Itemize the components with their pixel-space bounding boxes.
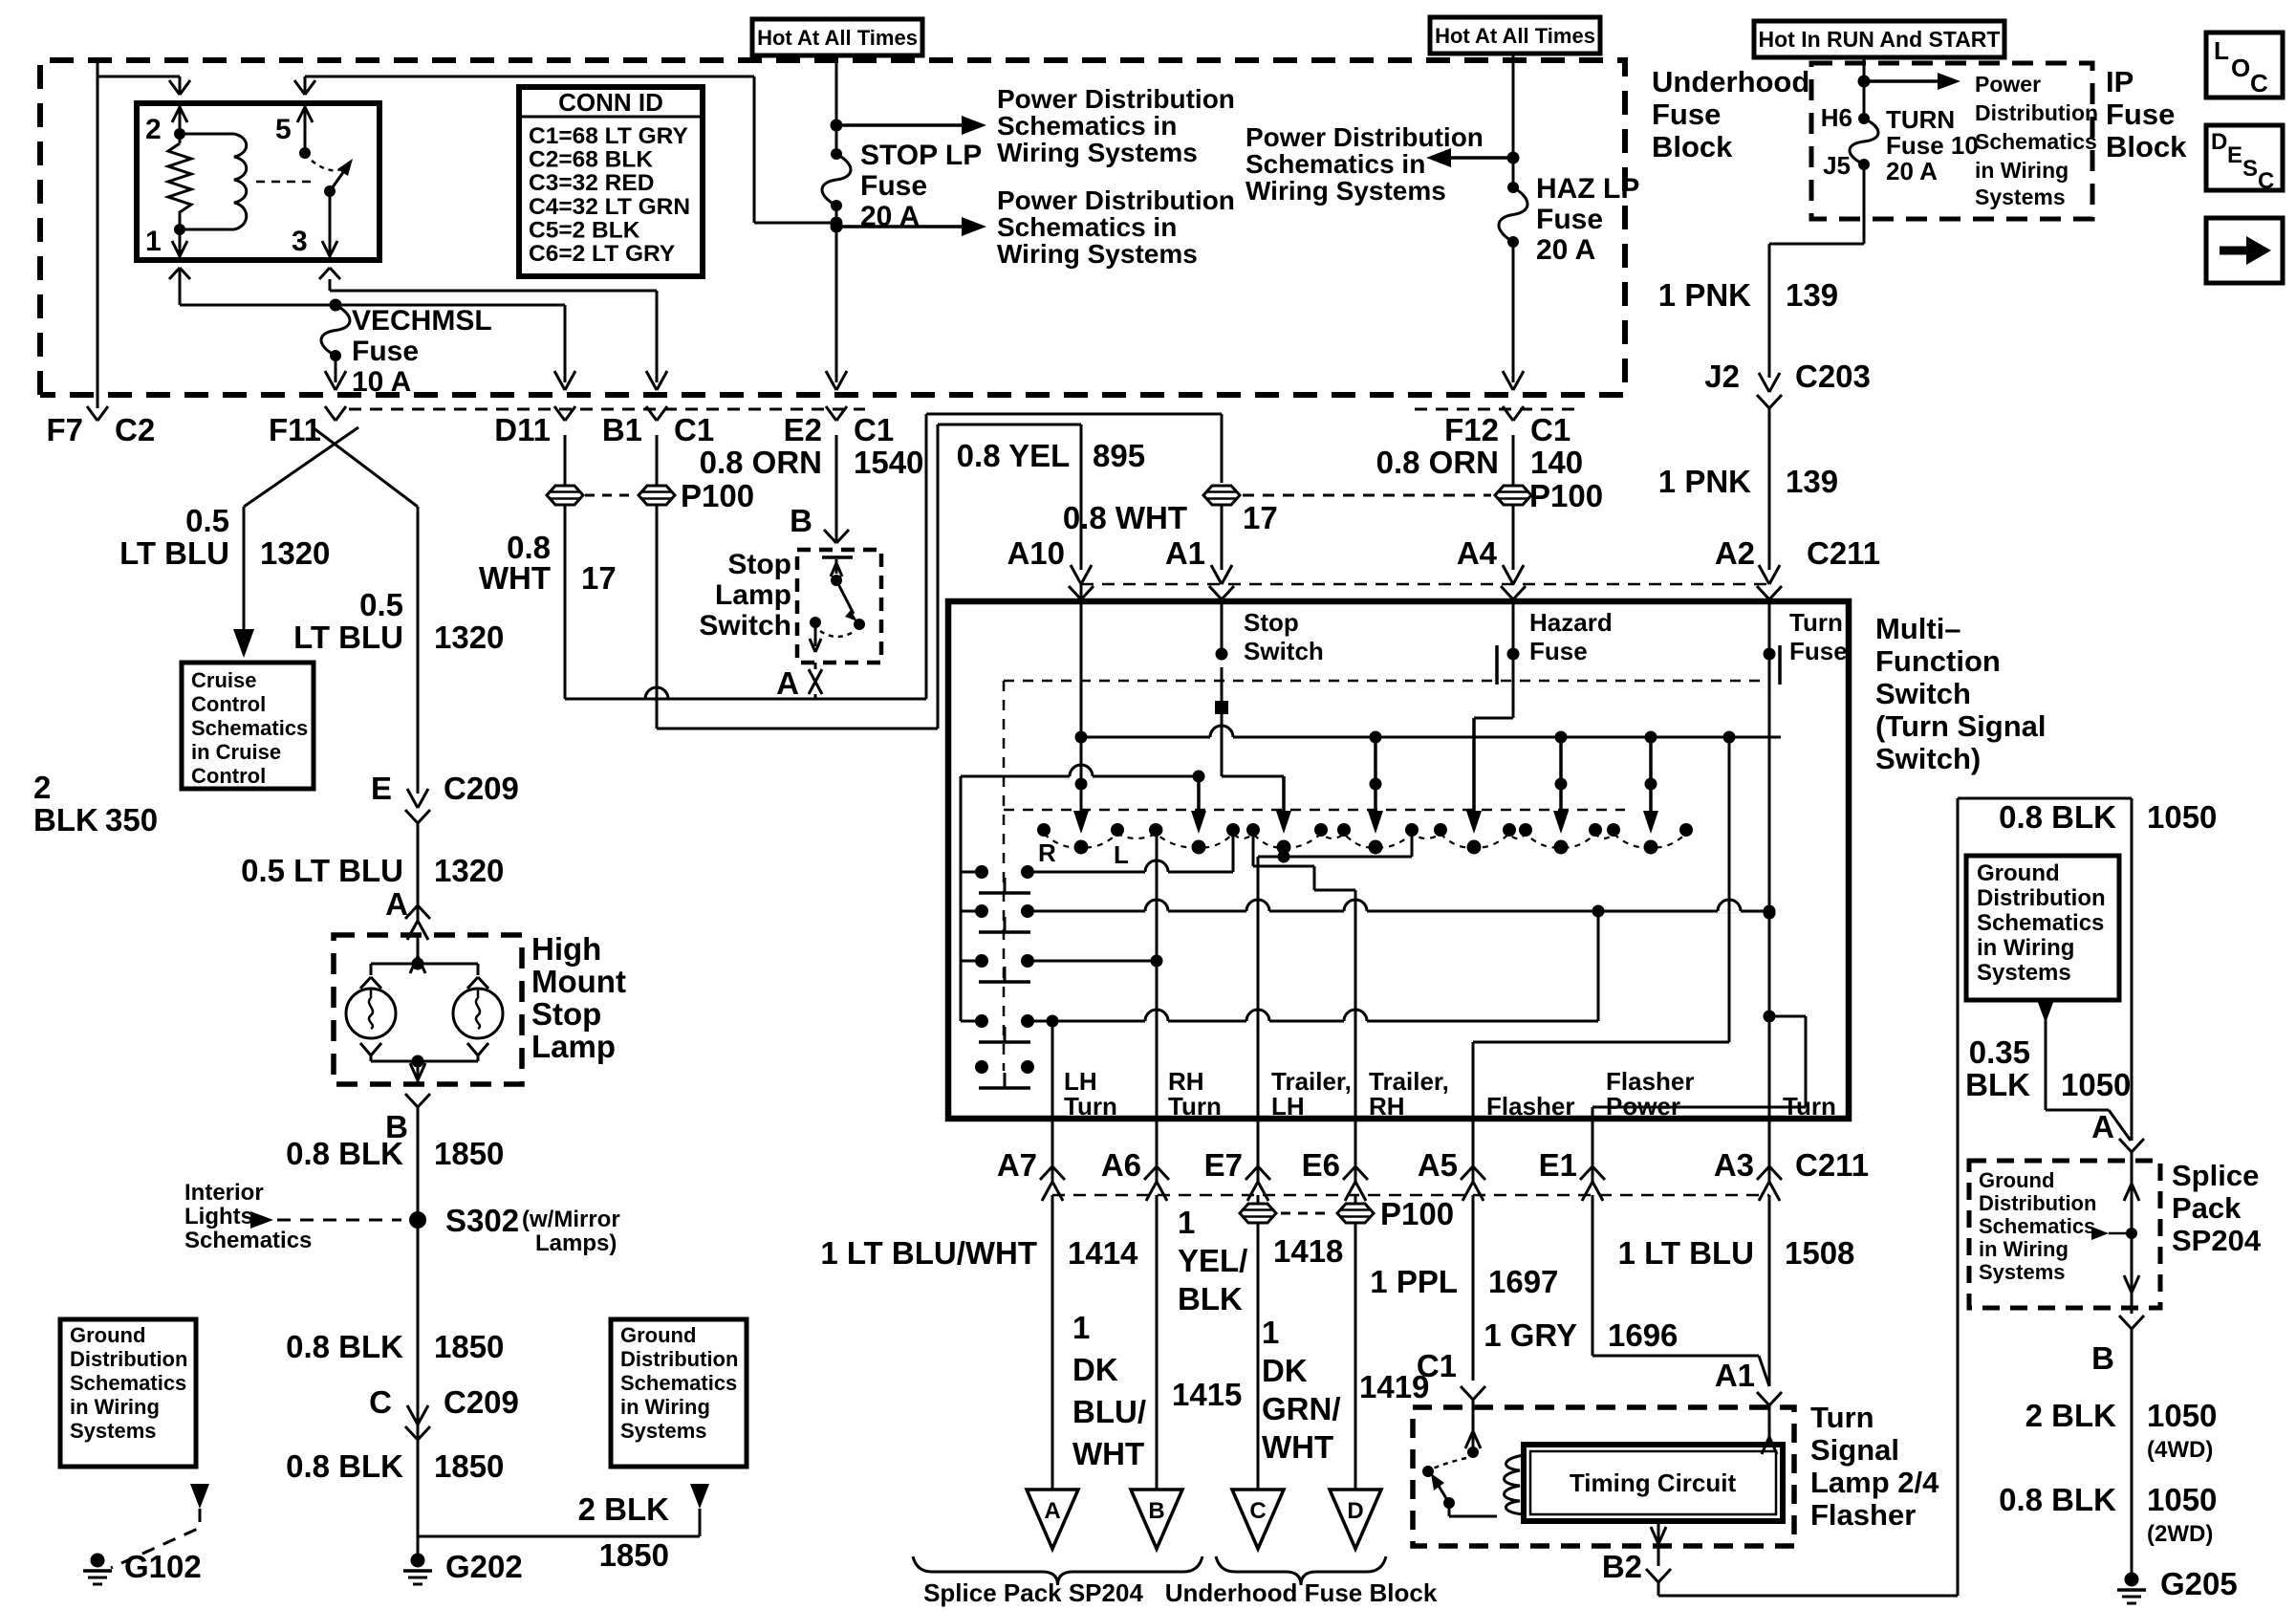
svg-text:RH: RH	[1369, 1092, 1405, 1120]
svg-text:Systems: Systems	[1979, 1260, 2066, 1284]
wire 0.5 LT BLU 1320 to cruise	[233, 507, 254, 658]
svg-text:WHT: WHT	[1262, 1429, 1333, 1465]
svg-text:Distribution: Distribution	[70, 1347, 187, 1371]
wire J2 to A2	[1757, 408, 1782, 599]
wire A1 grommet to MFS	[1221, 505, 1224, 570]
svg-text:Timing Circuit: Timing Circuit	[1570, 1469, 1737, 1497]
label C211 bottom	[1795, 1147, 1869, 1183]
svg-text:Turn: Turn	[1783, 1092, 1836, 1120]
label 0.8 ORN 1540	[700, 445, 924, 480]
connector D11	[494, 406, 575, 447]
svg-text:17: 17	[581, 560, 617, 596]
wire F7 pin2 feed	[97, 60, 190, 408]
svg-text:E1: E1	[1539, 1147, 1577, 1183]
svg-text:C6=2 LT GRY: C6=2 LT GRY	[529, 241, 675, 267]
MFS turn branch	[1598, 907, 1776, 920]
relay pin3 arrow	[322, 241, 337, 256]
LOC box	[2206, 33, 2283, 98]
svg-text:YEL/: YEL/	[1178, 1243, 1247, 1278]
svg-text:Schematics in: Schematics in	[1245, 149, 1425, 179]
svg-text:1540: 1540	[854, 445, 923, 480]
svg-text:1050: 1050	[2147, 1398, 2217, 1433]
wire A6 down	[1156, 1195, 1159, 1490]
label Underhood Fuse Block bottom	[1165, 1578, 1438, 1607]
svg-text:C1=68 LT GRY: C1=68 LT GRY	[529, 123, 688, 149]
MFS hazard fuse	[1466, 601, 1613, 834]
label A1 flasher	[1715, 1358, 1755, 1393]
svg-text:A7: A7	[997, 1147, 1037, 1183]
connector A1 flasher	[1757, 1392, 1782, 1405]
svg-text:Schematics: Schematics	[1979, 1214, 2095, 1238]
svg-text:1050: 1050	[2147, 799, 2217, 835]
svg-text:2 BLK: 2 BLK	[578, 1491, 670, 1527]
label power distribution schematics 3	[1245, 122, 1484, 206]
svg-text:Lamp: Lamp	[715, 579, 791, 611]
label power distribution schematics 4	[1975, 72, 2098, 209]
svg-text:1415: 1415	[1172, 1377, 1242, 1412]
grommet P100 A1	[1203, 435, 1603, 570]
svg-text:Distribution: Distribution	[1975, 100, 2098, 125]
wire pin1 to D11	[169, 268, 575, 390]
MFS stop switch element	[1215, 601, 1324, 714]
label power distribution schematics 1	[997, 84, 1235, 167]
svg-text:Function: Function	[1875, 644, 2001, 678]
svg-text:in Wiring: in Wiring	[1975, 158, 2069, 183]
svg-text:1050: 1050	[2061, 1067, 2131, 1102]
svg-text:B: B	[2091, 1340, 2114, 1376]
triangle connector C	[1232, 1490, 1284, 1549]
label IP Fuse Block	[2106, 65, 2187, 163]
svg-text:A: A	[385, 886, 408, 922]
svg-text:in Wiring: in Wiring	[620, 1395, 710, 1419]
label Turn Signal Lamp 2/4 Flasher	[1810, 1401, 1939, 1532]
flasher coil	[1505, 1455, 1525, 1514]
brace splice pack SP204	[913, 1556, 1202, 1585]
svg-text:Power Distribution: Power Distribution	[997, 84, 1235, 114]
MFS bus 953	[1034, 900, 1776, 918]
svg-text:Block: Block	[1652, 130, 1733, 163]
connector line thin dashed left	[349, 408, 865, 411]
label A splice	[2091, 1109, 2114, 1144]
svg-text:Underhood Fuse Block: Underhood Fuse Block	[1165, 1578, 1438, 1607]
svg-text:1320: 1320	[434, 853, 504, 888]
label Underhood Fuse Block	[1652, 65, 1809, 163]
svg-text:BLK: BLK	[1965, 1067, 2030, 1102]
svg-text:C: C	[369, 1384, 392, 1420]
connector A1	[1165, 535, 1234, 599]
fuse TURN Fuse 10 20A	[1821, 103, 1979, 185]
svg-text:Switch): Switch)	[1875, 742, 1981, 775]
relay pin 2 stub	[172, 103, 187, 134]
svg-text:0.8 BLK: 0.8 BLK	[1999, 799, 2116, 835]
svg-text:in Wiring: in Wiring	[1977, 935, 2074, 961]
wire A7 down	[1051, 1195, 1054, 1490]
fuse STOP LP 20A	[822, 140, 982, 232]
svg-text:A6: A6	[1101, 1147, 1141, 1183]
IP fuse block dashed border	[1811, 63, 2092, 219]
connector A5	[1418, 1119, 1485, 1201]
interior lights dashed arrow	[250, 1211, 401, 1229]
svg-text:0.8 BLK: 0.8 BLK	[286, 1329, 403, 1364]
wire hot RUN to TURN fuse	[1858, 55, 1871, 119]
svg-text:1050: 1050	[2147, 1482, 2217, 1517]
svg-text:Underhood: Underhood	[1652, 65, 1809, 98]
svg-text:Schematics: Schematics	[1977, 910, 2104, 936]
label 0.8 BLK 1850 (3)	[286, 1448, 504, 1484]
svg-text:Wiring Systems: Wiring Systems	[997, 138, 1198, 167]
svg-text:A2: A2	[1715, 535, 1755, 571]
svg-text:0.8 ORN: 0.8 ORN	[1376, 445, 1499, 480]
svg-text:HAZ LP: HAZ LP	[1536, 173, 1639, 205]
svg-text:0.8 ORN: 0.8 ORN	[700, 445, 822, 480]
svg-text:A4: A4	[1457, 535, 1498, 571]
relay linkage dashed	[256, 181, 317, 184]
svg-text:Pack: Pack	[2172, 1191, 2242, 1225]
connector line thin dashed F12	[1415, 408, 1577, 411]
svg-text:E7: E7	[1204, 1147, 1243, 1183]
CONN ID table	[519, 87, 703, 276]
wire A3 down	[1768, 1195, 1771, 1386]
svg-text:0.8 BLK: 0.8 BLK	[1999, 1482, 2116, 1517]
svg-text:G202: G202	[445, 1549, 523, 1584]
svg-text:J5: J5	[1823, 151, 1851, 180]
arrow power distribution 3	[1426, 148, 1513, 167]
svg-text:Fuse: Fuse	[1652, 98, 1721, 131]
svg-text:Hazard: Hazard	[1529, 608, 1613, 637]
label 1 LT BLU 1508	[1618, 1235, 1855, 1271]
svg-text:BLK: BLK	[33, 802, 98, 838]
flasher switch	[1422, 1458, 1497, 1516]
svg-text:Systems: Systems	[1975, 185, 2066, 209]
relay pin 5 stub	[297, 103, 313, 153]
svg-text:140: 140	[1530, 445, 1583, 480]
svg-text:3: 3	[292, 226, 308, 257]
svg-text:1696: 1696	[1608, 1317, 1678, 1353]
svg-text:Splice: Splice	[2172, 1159, 2259, 1192]
svg-text:L: L	[1114, 840, 1129, 869]
svg-text:Distribution: Distribution	[620, 1347, 738, 1371]
high mount stop lamp dashed box	[334, 935, 522, 1084]
triangle connector A	[1027, 1490, 1078, 1549]
svg-text:0.8 WHT: 0.8 WHT	[1063, 500, 1187, 535]
bulb left	[346, 989, 396, 1038]
svg-text:1850: 1850	[599, 1537, 669, 1573]
svg-text:Stop: Stop	[727, 549, 791, 580]
svg-text:C203: C203	[1795, 359, 1871, 394]
svg-text:High: High	[531, 931, 601, 967]
ground G202	[403, 1549, 523, 1584]
svg-text:LT BLU: LT BLU	[293, 620, 403, 655]
svg-text:1850: 1850	[434, 1136, 504, 1171]
svg-text:WHT: WHT	[479, 560, 551, 596]
relay box High Mount Stop Lamp (CHMSL) Relay	[137, 103, 379, 260]
wire A5 down	[1472, 1195, 1475, 1381]
relay coil winding	[180, 134, 247, 229]
svg-text:D11: D11	[494, 412, 551, 447]
MFS E1 riser	[1592, 1011, 1806, 1120]
svg-text:A5: A5	[1418, 1147, 1458, 1183]
svg-text:0.5: 0.5	[185, 503, 229, 538]
wire 2 BLK 350 label	[33, 770, 158, 838]
svg-text:Systems: Systems	[70, 1419, 157, 1443]
svg-text:L: L	[2214, 36, 2229, 65]
label 0.8 ORN 140	[1376, 445, 1583, 480]
label 1 LT BLU/WHT 1414	[820, 1235, 1138, 1271]
svg-text:Ground: Ground	[620, 1323, 696, 1347]
wire pin5 to stop fuse node	[294, 76, 831, 223]
MFS connector dashed line	[1081, 583, 1769, 586]
svg-text:1850: 1850	[434, 1448, 504, 1484]
svg-text:Switch: Switch	[699, 610, 791, 642]
svg-text:E2: E2	[784, 412, 822, 447]
svg-text:Schematics in: Schematics in	[997, 212, 1177, 242]
svg-text:0.35: 0.35	[1969, 1034, 2030, 1070]
svg-text:Fuse: Fuse	[2106, 98, 2175, 131]
svg-text:20 A: 20 A	[1536, 234, 1595, 266]
label 0.5 LT BLU 1320 (third)	[241, 853, 504, 888]
svg-text:BLK: BLK	[1178, 1281, 1243, 1316]
svg-text:1320: 1320	[260, 535, 330, 571]
svg-text:1 GRY: 1 GRY	[1484, 1317, 1577, 1353]
connector J2 C203	[1704, 359, 1871, 408]
flasher B2 output	[1602, 1521, 1958, 1596]
stop lamp switch contacts	[810, 557, 865, 652]
label 0.8 BLK 1850 (2)	[286, 1329, 504, 1364]
wire hot to stop fuse	[831, 55, 843, 154]
splice internal arrows	[2119, 1152, 2144, 1579]
wire 2 BLK 1850 to G202	[418, 1491, 700, 1573]
label B splice	[2091, 1340, 2114, 1376]
svg-text:C: C	[2258, 168, 2274, 194]
svg-text:Lamp 2/4: Lamp 2/4	[1810, 1466, 1939, 1499]
label High Mount Stop Lamp	[531, 931, 626, 1064]
wire pin3 to B1	[319, 268, 667, 390]
wire 0.8 WHT 17 B1 to A10	[657, 424, 1081, 729]
MFS internal dashed rect	[1004, 681, 1764, 1071]
MFS E6 riser	[1253, 830, 1355, 1119]
triangle connector D	[1330, 1490, 1381, 1549]
svg-text:1 LT BLU/WHT: 1 LT BLU/WHT	[820, 1235, 1037, 1271]
connector A10	[1007, 535, 1094, 599]
label interior lights schematics	[184, 1180, 312, 1253]
svg-text:1414: 1414	[1068, 1235, 1138, 1271]
splice S302	[409, 1203, 620, 1256]
label 1 PNK 139 lower	[1658, 464, 1838, 499]
svg-text:Fuse: Fuse	[352, 336, 419, 367]
svg-text:1418: 1418	[1273, 1233, 1343, 1269]
ground dist left arrow	[111, 1484, 209, 1568]
MFS E7 riser	[1258, 830, 1412, 1119]
svg-text:Switch: Switch	[1875, 677, 1971, 710]
connector A3	[1714, 1119, 1782, 1201]
relay coil resistor	[168, 128, 191, 235]
svg-text:C: C	[1249, 1498, 1266, 1524]
wire haz fuse down to F12	[1503, 242, 1524, 390]
svg-text:1: 1	[1178, 1205, 1195, 1240]
svg-text:STOP LP: STOP LP	[860, 140, 982, 171]
svg-text:(4WD): (4WD)	[2147, 1437, 2213, 1463]
svg-text:Turn: Turn	[1064, 1092, 1117, 1120]
svg-text:20 A: 20 A	[1886, 157, 1938, 185]
ground distribution box left	[60, 1319, 196, 1467]
svg-text:Power: Power	[1975, 72, 2041, 97]
svg-text:(w/Mirror: (w/Mirror	[522, 1207, 620, 1232]
svg-text:P100: P100	[1529, 478, 1603, 513]
label 0.8 WHT 17	[1063, 500, 1278, 535]
wire 0.35 BLK 1050	[2037, 1000, 2131, 1141]
connector C1 flasher	[1461, 1386, 1485, 1400]
connector A4	[1457, 535, 1526, 599]
svg-text:Ground: Ground	[1977, 860, 2060, 886]
underhood fuse block dashed border	[40, 60, 1625, 395]
svg-text:Fuse: Fuse	[1536, 204, 1603, 235]
MFS pin labels	[1064, 1067, 1836, 1120]
wire E6 down	[1281, 1195, 1454, 1490]
label Splice Pack SP204 right	[2172, 1159, 2262, 1257]
svg-text:A: A	[776, 665, 799, 701]
svg-text:Ground: Ground	[70, 1323, 145, 1347]
svg-text:J2: J2	[1704, 359, 1740, 394]
svg-text:P100: P100	[1380, 1196, 1454, 1231]
svg-text:C4=32 LT GRN: C4=32 LT GRN	[529, 194, 690, 220]
wire 0.8 YEL 895 stop to A1	[804, 414, 1222, 699]
svg-text:Fuse: Fuse	[860, 170, 927, 202]
MFS R L labels	[1038, 838, 1129, 869]
svg-text:1850: 1850	[434, 1329, 504, 1364]
ground distribution box right-top	[1966, 856, 2119, 1000]
svg-text:IP: IP	[2106, 65, 2134, 98]
label 2 BLK 1050 4WD	[2025, 1398, 2218, 1463]
label 0.5 LT BLU 1320 (left)	[119, 503, 330, 571]
svg-text:Power Distribution: Power Distribution	[997, 185, 1235, 215]
label 1 PNK 139 upper	[1658, 277, 1838, 313]
svg-text:Wiring Systems: Wiring Systems	[997, 239, 1198, 269]
cruise control box	[182, 663, 314, 789]
ground dist right arrow	[690, 1484, 709, 1509]
svg-text:2: 2	[145, 114, 162, 145]
svg-text:CONN ID: CONN ID	[558, 88, 663, 117]
ground G102	[83, 1549, 202, 1584]
svg-text:Control: Control	[191, 764, 266, 788]
svg-text:in Cruise: in Cruise	[191, 740, 281, 764]
svg-text:LT BLU: LT BLU	[119, 535, 229, 571]
svg-text:A1: A1	[1165, 535, 1205, 571]
timing circuit box	[1524, 1445, 1783, 1521]
svg-text:Multi–: Multi–	[1875, 612, 1961, 645]
svg-text:17: 17	[1243, 500, 1278, 535]
svg-text:0.5: 0.5	[359, 587, 403, 622]
connector F7 C2	[46, 406, 155, 447]
svg-text:Turn: Turn	[1810, 1401, 1874, 1434]
svg-text:Schematics in: Schematics in	[997, 111, 1177, 141]
svg-text:1508: 1508	[1785, 1235, 1854, 1271]
wire turn fuse to J2	[1769, 164, 1864, 378]
arrow power distribution 2	[831, 217, 987, 236]
connector A6	[1101, 1119, 1169, 1201]
MFS contact row	[1037, 823, 1693, 855]
svg-text:Hot In RUN And START: Hot In RUN And START	[1759, 27, 2001, 52]
MFS drop 1633	[1553, 737, 1569, 834]
label 0.8 YEL 895	[957, 438, 1145, 473]
fuse HAZ LP 20A	[1499, 173, 1639, 266]
svg-text:P100: P100	[681, 478, 754, 513]
flasher A1 entry	[1762, 1405, 1777, 1454]
svg-text:C1: C1	[1417, 1348, 1457, 1383]
splice box text	[1979, 1168, 2137, 1284]
svg-text:A: A	[1044, 1498, 1060, 1524]
svg-text:in Wiring: in Wiring	[70, 1395, 160, 1419]
svg-text:Schematics: Schematics	[1975, 129, 2097, 154]
MFS turn fuse	[1764, 601, 1848, 1119]
svg-text:Power: Power	[1606, 1092, 1680, 1120]
svg-text:C1: C1	[1530, 412, 1570, 447]
wire B2 ground loop	[1958, 798, 2132, 1596]
svg-text:D: D	[2211, 129, 2227, 155]
ground G205	[2117, 1566, 2238, 1603]
svg-text:1 PNK: 1 PNK	[1658, 277, 1751, 313]
svg-text:E: E	[2227, 142, 2242, 168]
label 0.8 BLK 1850 (1)	[286, 1136, 504, 1171]
connector A7	[997, 1119, 1065, 1201]
svg-text:H6: H6	[1821, 103, 1852, 132]
svg-text:Systems: Systems	[620, 1419, 707, 1443]
relay pin1 arrow	[172, 229, 187, 260]
svg-text:C209: C209	[444, 1384, 519, 1420]
grommet P100 B1	[585, 435, 754, 513]
connector B1 C1	[602, 406, 714, 447]
label A2 C211	[1715, 535, 1880, 571]
svg-text:Systems: Systems	[1977, 960, 2071, 986]
svg-text:139: 139	[1786, 277, 1838, 313]
svg-text:(Turn Signal: (Turn Signal	[1875, 709, 2047, 743]
MFS bus 1005	[1028, 955, 1163, 968]
svg-text:(2WD): (2WD)	[2147, 1521, 2213, 1547]
svg-text:GRN/: GRN/	[1262, 1391, 1341, 1426]
connector C C209	[369, 1384, 519, 1440]
svg-text:0.8 BLK: 0.8 BLK	[286, 1448, 403, 1484]
svg-text:Flasher: Flasher	[1486, 1092, 1575, 1120]
svg-text:895: 895	[1093, 438, 1145, 473]
svg-text:B: B	[1148, 1498, 1164, 1524]
svg-text:Hot At All Times: Hot At All Times	[1435, 24, 1595, 48]
label 0.8 BLK 1050 2WD	[1999, 1482, 2217, 1547]
svg-text:DK: DK	[1072, 1352, 1118, 1387]
next-page arrow box	[2206, 218, 2283, 283]
svg-text:Fuse: Fuse	[1789, 637, 1848, 665]
svg-text:Stop: Stop	[1244, 608, 1299, 637]
svg-text:Lamps): Lamps)	[535, 1230, 617, 1256]
connector E2 C1	[784, 406, 895, 447]
flasher C1 entry	[1465, 1400, 1481, 1458]
svg-text:SP204: SP204	[2172, 1224, 2262, 1257]
DESC box	[2206, 125, 2283, 194]
svg-text:10 A: 10 A	[352, 366, 411, 398]
svg-text:C5=2 BLK: C5=2 BLK	[529, 217, 640, 243]
label 1 YEL/BLK 1418	[1178, 1205, 1343, 1316]
connector A splice	[2119, 1139, 2144, 1152]
svg-text:2: 2	[33, 770, 51, 805]
MFS drop 1439	[1368, 737, 1383, 834]
svg-text:C1: C1	[674, 412, 714, 447]
MFS A7 riser	[1051, 1021, 1054, 1119]
label Stop Lamp Switch	[699, 549, 791, 642]
ground distribution box right	[611, 1319, 747, 1467]
svg-text:C: C	[2250, 69, 2268, 98]
power label box Hot In RUN And START	[1754, 21, 2004, 57]
label C1 flasher	[1417, 1348, 1457, 1383]
svg-text:C2=68 BLK: C2=68 BLK	[529, 147, 653, 173]
svg-text:B2: B2	[1602, 1549, 1642, 1584]
